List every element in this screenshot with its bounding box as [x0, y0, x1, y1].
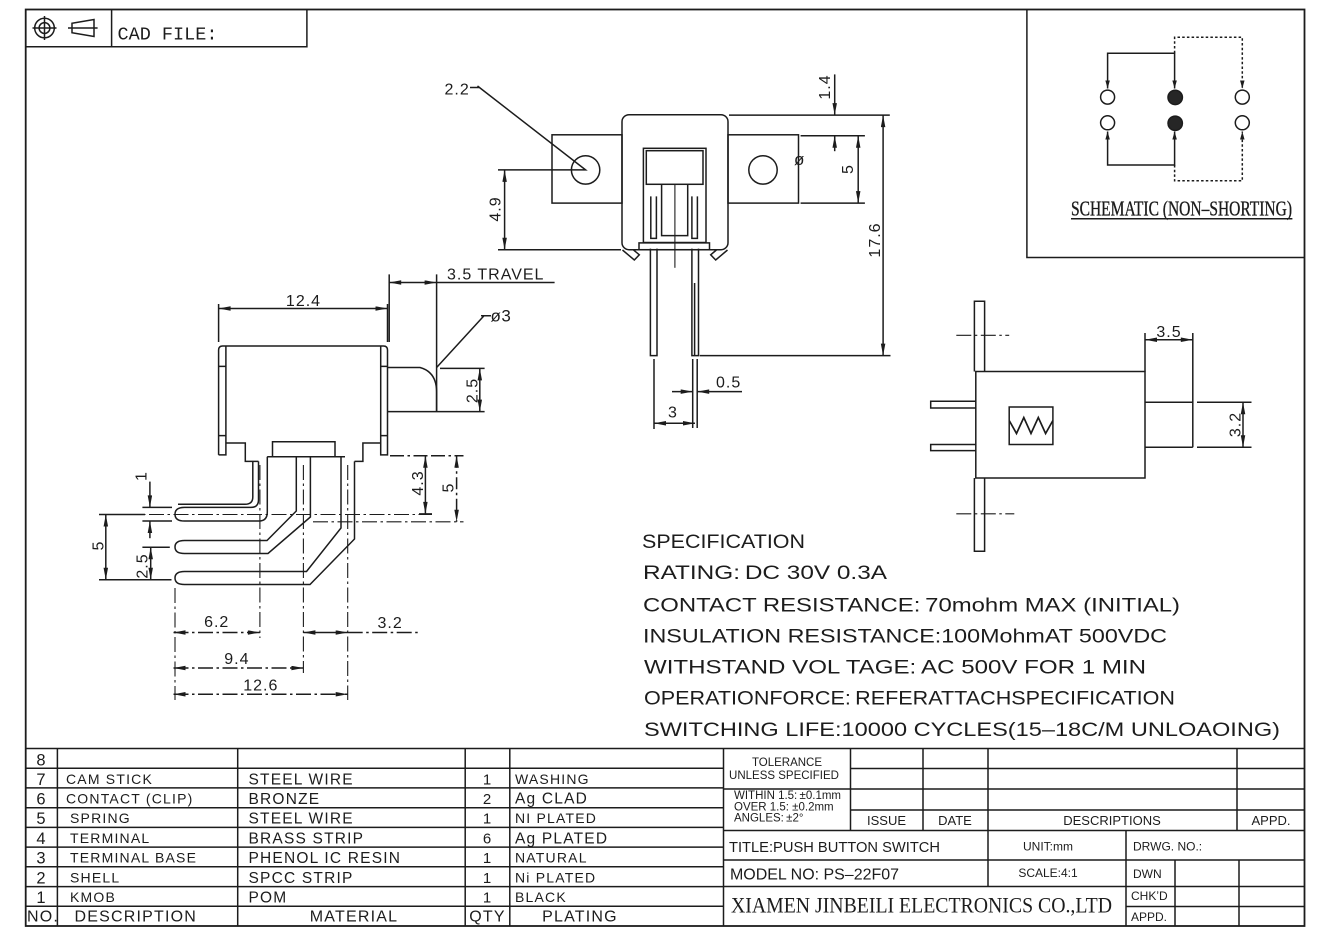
svg-text:9.4: 9.4	[224, 651, 249, 668]
schematic box	[1027, 10, 1305, 258]
dim 0.5	[672, 359, 742, 428]
side view terminal base plate	[267, 442, 345, 457]
dim 4.9	[498, 170, 621, 250]
front view left pin	[650, 196, 657, 355]
svg-text:CONTACT (CLIP): CONTACT (CLIP)	[66, 791, 194, 807]
right view plunger	[1145, 402, 1193, 447]
svg-text:APPD.: APPD.	[1251, 813, 1290, 828]
svg-text:DESCRIPTIONS: DESCRIPTIONS	[1063, 813, 1161, 828]
CAD FILE label	[118, 25, 218, 46]
dim 4.3	[390, 456, 432, 514]
svg-text:4: 4	[36, 830, 45, 848]
front view button inner	[646, 151, 703, 185]
schematic terminal open circle A1	[1101, 90, 1115, 104]
svg-text:SPCC STRIP: SPCC STRIP	[249, 870, 354, 887]
svg-text:6.2: 6.2	[204, 614, 229, 631]
svg-text:ø3: ø3	[491, 307, 512, 326]
dim 3.2 plunger height	[1197, 402, 1252, 447]
side view pin vertical centerlines	[175, 465, 348, 700]
title block grid	[724, 749, 1305, 927]
svg-text:2: 2	[36, 870, 45, 888]
svg-text:TITLE:PUSH BUTTON SWITCH: TITLE:PUSH BUTTON SWITCH	[729, 840, 940, 856]
schematic wire solid bottom bracket	[1108, 132, 1175, 166]
dim 2.5 plunger	[440, 368, 485, 411]
front view base plate	[639, 243, 710, 250]
svg-text:CONTACT RESISTANCE: 70mohm MAX: CONTACT RESISTANCE: 70mohm MAX (INITIAL)	[643, 595, 1180, 617]
svg-text:TERMINAL BASE: TERMINAL BASE	[70, 850, 197, 866]
schematic terminal open circle C1	[1235, 90, 1249, 104]
svg-text:APPD.: APPD.	[1131, 910, 1167, 924]
svg-text:BLACK: BLACK	[515, 889, 567, 905]
svg-text:2.5: 2.5	[135, 553, 152, 578]
dim 5 right of pins	[431, 456, 464, 522]
svg-text:6: 6	[36, 791, 45, 809]
front view left foot bevel	[623, 250, 640, 260]
svg-text:TERMINAL: TERMINAL	[70, 830, 150, 846]
svg-text:1: 1	[483, 850, 491, 867]
svg-text:6: 6	[483, 831, 491, 848]
svg-text:4.9: 4.9	[488, 196, 505, 221]
front view body shell	[622, 115, 728, 250]
dim 9.4	[174, 667, 304, 669]
svg-text:5: 5	[91, 541, 108, 550]
svg-text:3.2: 3.2	[378, 615, 403, 632]
svg-text:17.6: 17.6	[867, 222, 884, 257]
svg-text:STEEL WIRE: STEEL WIRE	[249, 811, 354, 828]
svg-text:3: 3	[668, 405, 677, 422]
front view stem center line	[674, 184, 676, 267]
svg-text:DATE: DATE	[938, 813, 972, 828]
svg-text:NO.: NO.	[27, 909, 59, 926]
svg-text:WITHSTAND VOL TAGE: AC 500V FO: WITHSTAND VOL TAGE: AC 500V FOR 1 MIN	[644, 657, 1146, 679]
schematic wire solid top bracket	[1108, 53, 1175, 88]
side view pin row centerline front	[100, 514, 432, 516]
svg-text:3.5 TRAVEL: 3.5 TRAVEL	[447, 267, 544, 284]
front view right mounting bracket	[728, 135, 799, 203]
svg-text:UNLESS SPECIFIED: UNLESS SPECIFIED	[729, 770, 839, 782]
svg-text:BRONZE: BRONZE	[249, 791, 321, 808]
svg-text:4.3: 4.3	[410, 470, 427, 495]
svg-text:CHKʼD: CHKʼD	[1131, 889, 1168, 903]
parts table texts	[27, 752, 618, 926]
svg-text:POM: POM	[249, 890, 288, 907]
svg-text:SCHEMATIC (NON–SHORTING): SCHEMATIC (NON–SHORTING)	[1071, 197, 1292, 221]
svg-text:SHELL: SHELL	[70, 870, 120, 886]
svg-text:WITHIN 1.5: ±0.1mm: WITHIN 1.5: ±0.1mm	[734, 790, 841, 802]
svg-text:DWN: DWN	[1133, 867, 1162, 881]
schematic wire dashed top bracket	[1175, 37, 1243, 88]
svg-text:PLATING: PLATING	[542, 909, 618, 926]
dim 5 pin span left	[99, 515, 172, 580]
svg-text:SCALE:4:1: SCALE:4:1	[1018, 866, 1078, 880]
svg-text:KMOB: KMOB	[70, 889, 116, 905]
svg-text:STEEL WIRE: STEEL WIRE	[249, 772, 354, 789]
svg-text:RATING: DC 30V 0.3A: RATING: DC 30V 0.3A	[643, 562, 887, 584]
front view right mounting hole	[749, 156, 777, 184]
dim 3.5 plunger	[1145, 333, 1193, 447]
svg-text:0.5: 0.5	[716, 375, 741, 392]
front view left mounting hole	[571, 156, 599, 184]
side view pin row3 bent terminal	[175, 457, 355, 585]
svg-text:INSULATION RESISTANCE:100MohmA: INSULATION RESISTANCE:100MohmAT 500VDC	[643, 626, 1167, 648]
title block texts	[729, 757, 1291, 924]
right view body	[976, 372, 1145, 479]
dim leader diameter 3	[437, 316, 491, 368]
svg-text:ISSUE: ISSUE	[867, 813, 906, 828]
schematic terminal filled circle B2	[1168, 116, 1182, 130]
svg-text:7: 7	[36, 771, 45, 789]
svg-text:2.2: 2.2	[445, 82, 470, 99]
right view lower pin	[931, 445, 976, 451]
svg-text:5: 5	[36, 810, 45, 828]
dim 6.2	[174, 632, 260, 634]
svg-text:DESCRIPTION: DESCRIPTION	[75, 909, 198, 926]
dim 3 bottom of front view	[654, 359, 695, 429]
svg-text:PHENOL IC RESIN: PHENOL IC RESIN	[249, 850, 402, 867]
front view button outer	[643, 148, 706, 242]
svg-text:1: 1	[483, 890, 491, 907]
side view pin row1 bent terminal	[175, 457, 267, 521]
svg-text:5: 5	[441, 483, 458, 492]
svg-text:1: 1	[483, 870, 491, 887]
svg-text:XIAMEN JINBEILI ELECTRONICS CO: XIAMEN JINBEILI ELECTRONICS CO.,LTD	[731, 893, 1112, 918]
svg-text:CAD FILE:: CAD FILE:	[118, 25, 218, 46]
right view spring box	[1009, 407, 1053, 445]
svg-text:UNIT:mm: UNIT:mm	[1023, 840, 1073, 854]
schematic terminal open circle C2	[1235, 116, 1249, 130]
front view left mounting bracket	[552, 135, 622, 203]
svg-text:Ag PLATED: Ag PLATED	[515, 831, 608, 848]
right view upper pin	[931, 401, 976, 408]
svg-text:TOLERANCE: TOLERANCE	[752, 757, 822, 769]
third-angle projection symbol	[33, 16, 98, 40]
side view pin row centerline back	[313, 521, 464, 523]
svg-text:CAM STICK: CAM STICK	[66, 771, 153, 787]
dim 17.6	[700, 115, 891, 356]
svg-text:SWITCHING LIFE:10000 CYCLES(15: SWITCHING LIFE:10000 CYCLES(15–18C/M UNL…	[644, 719, 1280, 741]
svg-text:MODEL NO: PS–22F07: MODEL NO: PS–22F07	[730, 867, 899, 884]
schematic terminal filled circle B1	[1168, 90, 1182, 104]
schematic caption underline	[1071, 218, 1292, 220]
svg-text:1: 1	[483, 772, 491, 789]
front view right foot bevel	[711, 250, 728, 260]
svg-text:1.4: 1.4	[817, 74, 834, 99]
svg-text:1: 1	[36, 889, 45, 907]
dim leader 2.2	[445, 82, 470, 99]
dim 3.2 pin offset	[303, 632, 420, 634]
dim 12.6	[174, 693, 348, 695]
dim 1.4	[729, 74, 890, 203]
side view body shell	[219, 346, 388, 461]
dim 5 vertical right	[857, 136, 859, 203]
svg-text:3.5: 3.5	[1156, 324, 1181, 341]
schematic wire dashed bottom bracket	[1175, 132, 1243, 181]
svg-text:QTY: QTY	[469, 909, 506, 926]
svg-text:MATERIAL: MATERIAL	[310, 909, 398, 926]
right view bottom mounting tab	[974, 478, 984, 551]
side view plunger knob	[388, 368, 485, 412]
CAD FILE title box	[26, 10, 307, 47]
svg-text:BRASS STRIP: BRASS STRIP	[249, 831, 365, 848]
svg-text:ANGLES: ±2°: ANGLES: ±2°	[734, 813, 803, 825]
parts table grid	[26, 749, 1305, 927]
svg-text:8: 8	[36, 752, 45, 770]
svg-text:2.5: 2.5	[465, 378, 482, 403]
svg-text:WASHING: WASHING	[515, 771, 590, 787]
dim 12.4	[219, 304, 388, 342]
schematic terminal open circle A2	[1101, 116, 1115, 130]
svg-text:NATURAL: NATURAL	[515, 850, 588, 866]
svg-text:SPRING: SPRING	[70, 810, 131, 826]
svg-text:Ni PLATED: Ni PLATED	[515, 870, 596, 886]
svg-text:Ag CLAD: Ag CLAD	[515, 791, 588, 808]
svg-text:1: 1	[483, 811, 491, 828]
svg-text:1: 1	[134, 472, 151, 481]
svg-text:12.6: 12.6	[243, 678, 278, 695]
dim 2.5 pin pitch	[142, 547, 169, 579]
dim 1 pin thickness	[142, 482, 172, 539]
svg-text:3.2: 3.2	[1228, 412, 1245, 437]
svg-text:NI PLATED: NI PLATED	[515, 810, 597, 826]
svg-text:OPERATIONFORCE: REFERATTACHSPE: OPERATIONFORCE: REFERATTACHSPECIFICATION	[644, 688, 1175, 710]
svg-text:5: 5	[840, 165, 857, 174]
svg-text:DRWG. NO.:: DRWG. NO.:	[1133, 840, 1202, 854]
schematic caption SCHEMATIC (NON-SHORTING)	[1071, 197, 1292, 221]
dim 3.5 TRAVEL	[389, 274, 554, 411]
svg-text:12.4: 12.4	[286, 293, 321, 310]
parts table header row	[27, 909, 618, 926]
diameter mark on right hole	[794, 150, 804, 169]
svg-text:ø: ø	[794, 150, 804, 169]
front view stem channel	[662, 184, 688, 235]
svg-text:SPECIFICATION: SPECIFICATION	[642, 531, 805, 553]
svg-text:2: 2	[483, 791, 491, 808]
right view top mounting tab	[974, 301, 984, 371]
side view pin row2 bent terminal	[175, 457, 310, 554]
svg-text:3: 3	[36, 850, 45, 868]
right view spring zigzag	[1009, 418, 1053, 434]
right view tab centerlines	[956, 335, 1014, 514]
front view right pin	[692, 196, 699, 355]
